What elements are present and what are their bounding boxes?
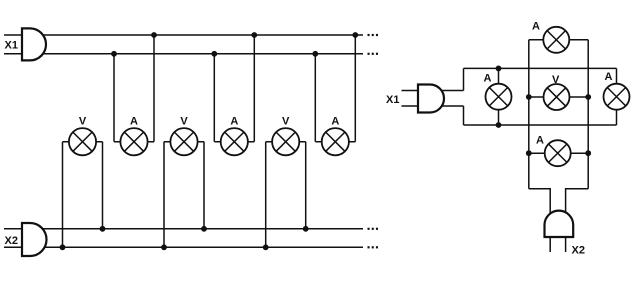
wire: bottom rail — [464, 124, 617, 126]
label X2 — [5, 235, 18, 247]
wire: lamp V at x=285.7 right lead down to upper bottom bus — [305, 142, 307, 229]
node: bottom bus 1 continuation dots — [368, 228, 379, 230]
wire: lamp V at x=184.0 horizontal stubs — [164, 141, 204, 143]
wire: right X1 lower lead — [402, 105, 464, 107]
junction: x=265.7 on lower bottom bus — [263, 244, 269, 250]
lamp A1 (indicator A) — [120, 128, 147, 155]
svg-text:X2: X2 — [5, 235, 18, 247]
junction: x=305.7 on upper bottom bus — [303, 226, 309, 232]
wire: lamp A at x=234.3 horizontal stubs — [214, 141, 254, 143]
wire: left feed step to X2 socket — [529, 189, 550, 220]
junction: x=62.5 on lower bottom bus — [60, 244, 66, 250]
label X1 (right) — [386, 94, 399, 106]
wire: top ammeter horizontal leads — [529, 39, 588, 41]
wire: lamp A at x=234.3 right lead up to upper top bus — [253, 35, 255, 142]
wire: lamp A at x=134.0 right lead up to upper top bus — [153, 35, 155, 142]
wire: lamp A at x=335.3 left lead up to lower top bus — [314, 54, 316, 142]
junction: voltmeter right — [585, 94, 591, 100]
plug X2 (left circuit) — [22, 223, 47, 256]
junction: x=164.0 on lower bottom bus — [161, 244, 167, 250]
label A for lower ammeter — [536, 135, 544, 147]
wire: bottom bus line 2 (from X2 lower) — [4, 246, 363, 248]
label X2 (right) — [572, 245, 585, 257]
wire: right ammeter vertical lead — [616, 68, 618, 125]
svg-text:A: A — [130, 115, 138, 127]
wire: voltmeter horizontal leads — [529, 96, 588, 98]
junction: x=154.0 on upper top bus — [151, 32, 157, 38]
junction: top of left ammeter — [496, 66, 502, 72]
wire: right X1 upper lead — [402, 90, 464, 92]
wire: X2 right prong — [565, 237, 567, 252]
wire: lamp A at x=134.0 horizontal stubs — [114, 141, 154, 143]
label A for left ammeter — [484, 73, 492, 85]
svg-text:X2: X2 — [572, 245, 585, 257]
svg-text:A: A — [230, 115, 238, 127]
wire: lamp V at x=82.5 left lead down to lower bottom bus — [62, 142, 64, 248]
junction: x=114.0 on lower top bus — [111, 51, 117, 57]
plug X1 (right circuit) — [418, 85, 444, 113]
wire: corner down to bottom rail — [463, 106, 465, 125]
wire: lamp V at x=82.5 right lead down to upper bottom bus — [102, 142, 104, 229]
wire: right feed step to X2 socket — [566, 189, 589, 220]
wire: lamp V at x=285.7 horizontal stubs — [266, 141, 306, 143]
svg-text:A: A — [605, 71, 613, 83]
label A for lamp A1 — [130, 115, 138, 127]
wire: corner up to top rail — [463, 68, 465, 90]
label X1 — [5, 40, 18, 52]
wire: lamp A at x=134.0 left lead up to lower top bus — [113, 54, 115, 142]
lamp A3 (indicator A) — [322, 128, 349, 155]
wire: lamp V at x=285.7 left lead down to lower bottom bus — [265, 142, 267, 248]
node: top bus 1 continuation dots — [368, 34, 379, 36]
junction: lower ammeter right — [585, 150, 591, 156]
wire: lamp V at x=184.0 right lead down to upper bottom bus — [203, 142, 205, 229]
wire: lamp A at x=335.3 right lead up to upper top bus — [354, 35, 356, 142]
junction: x=355.3 on upper top bus — [352, 32, 358, 38]
svg-text:X1: X1 — [5, 40, 18, 52]
svg-text:A: A — [331, 115, 339, 127]
wire: right vertical riser — [587, 40, 589, 189]
svg-text:V: V — [79, 115, 87, 127]
wire: lamp A at x=335.3 horizontal stubs — [315, 141, 355, 143]
label A for lamp A3 — [331, 115, 339, 127]
label V for lamp V2 — [180, 115, 188, 127]
wire: top rail — [464, 67, 617, 69]
label V for lamp V3 — [282, 115, 290, 127]
plug X1 (left circuit) — [22, 28, 46, 60]
lamp V4 voltmeter — [544, 84, 570, 110]
junction: voltmeter left — [526, 94, 532, 100]
label V for voltmeter — [552, 74, 560, 86]
wire: top bus line 1 (from X1 upper) — [4, 34, 363, 36]
lamp A2 (indicator A) — [221, 128, 248, 155]
label V for lamp V1 — [79, 115, 87, 127]
svg-text:A: A — [532, 21, 540, 33]
junction: bottom of left ammeter — [496, 122, 502, 128]
wire: lamp A at x=234.3 left lead up to lower top bus — [213, 54, 215, 142]
node: bottom bus 2 continuation dots — [368, 246, 379, 248]
wire: top bus line 2 (from X1 lower) — [4, 53, 363, 55]
label A for lamp A2 — [230, 115, 238, 127]
lamp V3 (indicator V) — [272, 128, 299, 155]
svg-text:V: V — [180, 115, 188, 127]
junction: x=204.0 on upper bottom bus — [201, 226, 207, 232]
wire: left vertical riser — [528, 40, 530, 189]
junction: x=214.3 on lower top bus — [211, 51, 217, 57]
junction: x=254.3 on upper top bus — [251, 32, 257, 38]
svg-text:A: A — [536, 135, 544, 147]
node: top bus 2 continuation dots — [368, 53, 379, 55]
junction: lower ammeter left — [526, 150, 532, 156]
svg-text:V: V — [552, 74, 560, 86]
lamp A4 left ammeter — [486, 84, 512, 110]
wire: lamp V at x=82.5 horizontal stubs — [63, 141, 103, 143]
lamp V1 (indicator V) — [69, 128, 96, 155]
svg-text:X1: X1 — [386, 94, 399, 106]
svg-text:A: A — [484, 73, 492, 85]
lamp A5 top ammeter — [543, 27, 569, 53]
label A for top ammeter — [532, 21, 540, 33]
wire: lower ammeter horizontal leads — [529, 152, 588, 154]
lamp A7 lower ammeter — [545, 140, 571, 166]
lamp A6 right ammeter — [604, 84, 630, 110]
wire: lamp V at x=184.0 left lead down to lower bottom bus — [163, 142, 165, 248]
svg-text:V: V — [282, 115, 290, 127]
lamp V2 (indicator V) — [170, 128, 197, 155]
junction: x=102.5 on upper bottom bus — [100, 226, 106, 232]
wire: X2 left prong — [549, 237, 551, 252]
label A for right ammeter — [605, 71, 613, 83]
wire: left ammeter vertical lead — [498, 68, 500, 125]
plug X2 (right circuit, socket dome) — [545, 211, 574, 237]
junction: x=315.3 on lower top bus — [312, 51, 318, 57]
wire: bottom bus line 1 (from X2 upper) — [4, 228, 363, 230]
